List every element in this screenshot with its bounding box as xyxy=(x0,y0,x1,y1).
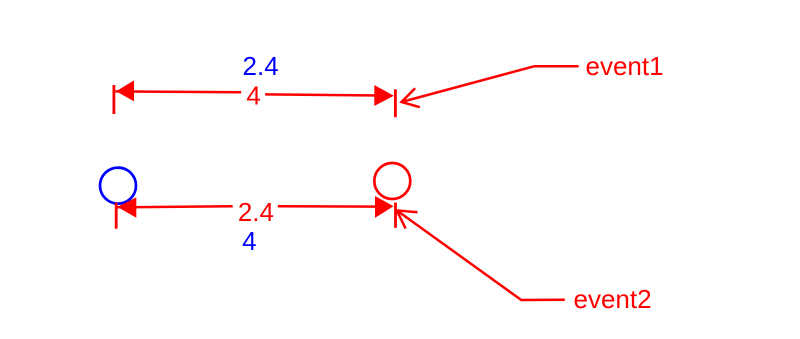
open arrowhead event1 xyxy=(402,88,420,107)
svg-text:2.4: 2.4 xyxy=(238,197,274,227)
arrowhead bottom right xyxy=(375,196,394,218)
open arrowhead event2 xyxy=(397,210,418,228)
leader line event1 xyxy=(402,66,579,102)
dimension line bottom left segment xyxy=(117,206,233,207)
svg-text:4: 4 xyxy=(242,226,256,256)
dimension line top left segment xyxy=(116,90,242,93)
leader line event2 xyxy=(397,210,565,300)
tick mark bottom right xyxy=(394,203,397,228)
arrowhead top right xyxy=(374,85,394,106)
svg-text:event1: event1 xyxy=(586,51,664,81)
tick mark bottom left xyxy=(115,203,118,229)
svg-text:event2: event2 xyxy=(574,284,652,314)
tick mark top right xyxy=(394,89,397,117)
circle blue (left event marker) xyxy=(100,168,136,204)
dimension line top right segment xyxy=(265,94,380,95)
arrowhead top left xyxy=(116,80,134,101)
svg-text:2.4: 2.4 xyxy=(243,51,279,81)
tick mark top left xyxy=(113,85,116,114)
svg-text:4: 4 xyxy=(246,81,260,111)
circle red (right event marker) xyxy=(374,163,410,199)
arrowhead bottom left xyxy=(117,197,136,218)
dimension line bottom right segment xyxy=(278,205,380,208)
